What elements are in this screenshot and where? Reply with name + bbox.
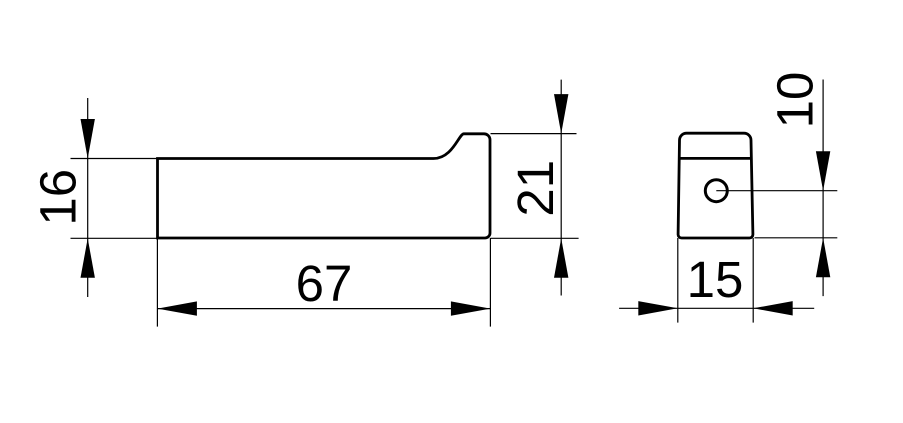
dimension 67 extension line left — [156, 238, 158, 327]
dimension 16 arrow down — [81, 119, 95, 159]
front view cap line — [679, 157, 752, 160]
dimension 21 dimension line — [560, 80, 562, 296]
dimension 21 extension line top — [491, 133, 577, 135]
dimension 21 arrow up — [554, 238, 568, 277]
dimension 10 arrow down — [816, 151, 830, 191]
dimension 67 extension line right — [489, 238, 491, 327]
dimension 67 arrow right — [451, 301, 491, 315]
dimension 15 dimension line — [619, 307, 814, 309]
dimension 10 dimension line — [822, 80, 824, 297]
svg-text:15: 15 — [687, 251, 744, 308]
front view outline of hook — [678, 133, 753, 238]
dimension 15 arrow pointing right — [638, 301, 678, 315]
dimension 67 arrow left — [157, 301, 197, 315]
dimension 15 extension line right — [752, 238, 754, 323]
dimension 15 extension line left — [677, 238, 679, 323]
dimension 15 arrow pointing left — [753, 301, 793, 315]
svg-text:16: 16 — [30, 169, 87, 226]
dimension 16 dimension line — [87, 98, 89, 297]
svg-text:67: 67 — [296, 255, 353, 312]
dimension 10 arrow up — [816, 238, 830, 277]
dimension 21 arrow down — [554, 94, 568, 134]
dimension 10 extension line bottom — [755, 237, 838, 239]
svg-text:21: 21 — [507, 160, 564, 217]
dimension 16 arrow up — [81, 238, 95, 277]
dimension 67 dimension line — [157, 308, 490, 310]
dimension 10 extension line from hole center — [716, 190, 837, 192]
dimension 16 extension line top — [71, 158, 158, 160]
svg-text:10: 10 — [766, 72, 823, 129]
side view outline of hook — [158, 134, 491, 238]
dimension 21 extension line bottom — [491, 237, 579, 239]
front view mounting hole — [705, 180, 727, 202]
dimension 16 extension line bottom — [71, 237, 158, 239]
